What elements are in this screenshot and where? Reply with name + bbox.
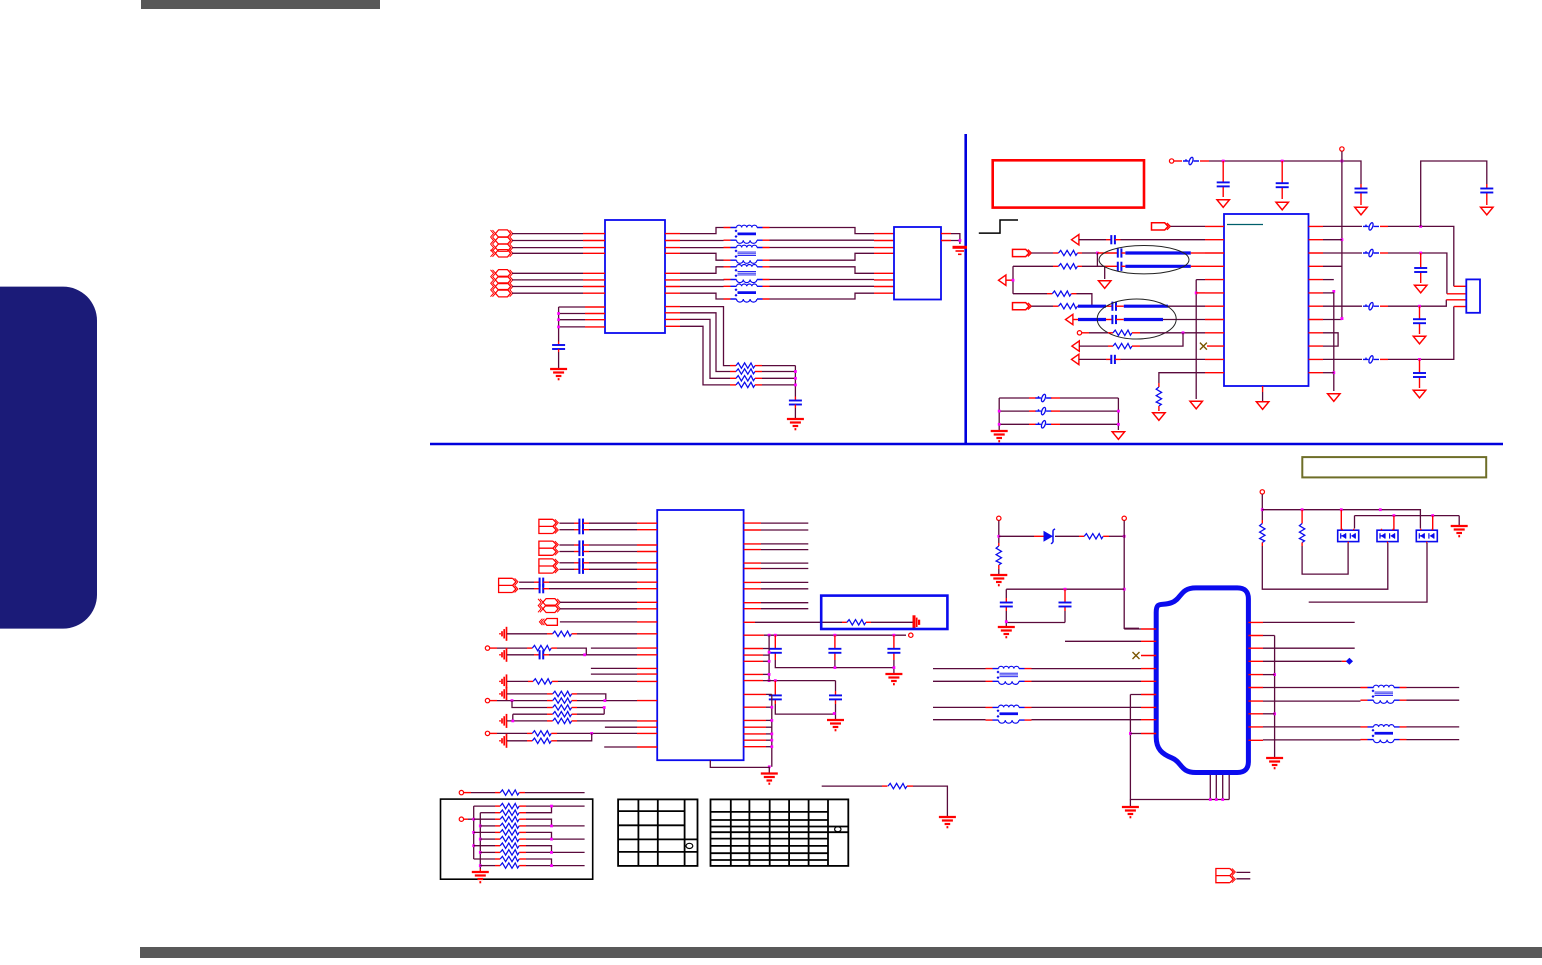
pin stub [574,522,579,524]
wire pack pair 4 [526,846,585,853]
wire pack row [474,858,495,860]
resistor R27 [1260,524,1265,543]
U4 pin stub [744,621,755,623]
pin stub [1486,184,1488,205]
capacitor C27 [887,649,900,653]
pin stub [551,647,557,649]
J2 right pin stubs [941,234,951,241]
wire U1 to T4 top [680,286,724,288]
junction [959,239,962,242]
wire T3 to J2 pin5 [770,267,875,274]
port PD3 [1013,303,1032,310]
wire pack row [480,825,495,827]
pin stub [882,785,888,787]
junction [1182,331,1185,334]
pack bus A junctions [472,818,475,821]
resistor R17 [553,705,572,710]
ground GND3 [787,419,804,429]
capacitor C4 [1276,183,1289,187]
resistor R15 [553,691,572,696]
terminal P10 [997,516,1001,520]
wire R16 to U4 [577,700,637,702]
resistor R20 [532,731,551,736]
wire U4 bus A [768,635,770,680]
pin stub [1034,535,1044,537]
no-connect X1 [1200,343,1207,350]
pin stub [637,647,657,649]
wire R2 to node [762,371,795,373]
pin stub [519,805,526,807]
U4 pin stub [744,693,766,695]
wire to J5 pin2 [1065,640,1141,642]
resistor R18 [553,712,572,717]
port PT3 [1066,314,1073,324]
pin stub [495,825,500,827]
wire P6 to R20 [497,732,527,734]
wire FB4 to J3 pin3 [1388,300,1446,306]
junction [590,732,593,735]
pin stub [1301,543,1303,547]
resistor RN2 [500,810,519,815]
pin stub [1420,253,1422,283]
pin stub [1301,510,1303,524]
wire U1 to T3 bottom [680,279,724,281]
pin stub [637,551,657,553]
capacitor C20 [579,558,583,567]
junction [583,653,586,656]
pin stub [527,740,532,742]
connector J5 (RJ45 jack) [1156,588,1248,773]
pin stub [1419,306,1421,334]
wire node to k3 [1096,253,1098,266]
pin stub [1106,239,1111,241]
resistor R28 [1299,524,1304,543]
wire T6 to J5 [1032,707,1142,719]
wire PB4 to cap [519,588,534,590]
wire T1 to J2 pin1 [770,228,875,234]
pin stub [1108,345,1113,347]
pin stub [583,292,605,294]
junctions [1393,514,1396,517]
wire PB5 leads [1236,872,1250,878]
junctions [768,634,771,637]
junctions [1273,673,1276,676]
wire GND21 to R15 [507,693,547,695]
capacitor C23 [540,584,544,593]
wire cap bank rail [775,660,894,673]
wire pack row [474,818,495,820]
wire cap rail top [1006,589,1124,598]
wire pin to bus A [763,654,769,656]
bottom gray bar [140,947,1542,958]
pin stub [1078,305,1081,307]
pin stub [730,371,736,373]
U4 pin stub [744,680,763,682]
wire PL1 to U4 [560,621,637,623]
wire U4 stub [605,726,637,728]
pin stub [572,707,577,709]
pin stub [519,845,526,847]
U3 bottom pin stub [1262,386,1264,392]
resistor R11 [1156,387,1161,406]
pin stub [637,529,657,531]
wire J1 to U1 [512,247,583,249]
pin stub [583,272,605,274]
TVS top stubs [1341,510,1432,531]
U3 right pin stubs [1309,226,1324,372]
horizontal divider [430,443,1503,446]
pin stub [547,693,553,695]
ground GND19 [500,648,507,662]
wire PB to cap [559,551,574,553]
ground GND28 [939,817,956,827]
wire to choke T5 [933,669,986,682]
junction [1123,588,1126,591]
pin stub [574,562,579,564]
junctions [1222,160,1225,163]
pin stub [1121,252,1125,254]
ground GND23 [500,734,507,748]
pin stub [543,581,549,583]
choke T4 [724,284,770,302]
wire U1 to T3 top [680,267,724,274]
wire pack row [480,838,495,840]
wire U4 outputs [761,603,808,609]
wire R5 to node [1082,252,1097,254]
ground GND2 [953,247,968,254]
ferrite bead FB7 [1036,407,1052,415]
ground GND17 [1112,432,1124,440]
pin stub [495,851,500,853]
wire pack row [480,865,495,867]
U4 pin stub [744,733,766,735]
U1 left pin stubs [585,307,605,327]
ground GND25 [885,674,902,684]
resistor R2 [736,369,755,374]
pin stub [495,812,500,814]
pin stub [637,588,657,590]
junction [1418,358,1421,361]
resistor RN10 [500,863,519,868]
wire U1 to T1 bottom [680,240,724,242]
port PD2 [1013,249,1032,256]
wire J5 shield right [1263,636,1275,758]
J5 right pin stubs [1248,622,1263,740]
wire pin to bus B [766,706,772,708]
pin stub [1116,319,1124,321]
wire U4 outputs [761,523,808,530]
pin stub [1380,358,1388,360]
ground GND27 [761,774,778,784]
pin stub [730,377,736,379]
capacitor C29 [829,695,842,699]
ground GND34 [1266,758,1283,768]
wire PD2 to R5 [1032,252,1054,254]
wire pack row [480,851,495,853]
wire cap to U4 [589,568,637,570]
pin stub [637,654,657,656]
pin stub [1115,239,1121,241]
J3 pin3 stub [1446,299,1466,301]
wire pin to bus A [763,660,769,662]
capacitor C24 [540,650,544,659]
capacitor C28 [769,695,782,699]
wire DA3 to shield [1309,543,1427,602]
resistor R23 [888,783,907,788]
wire pack pair 2 [526,819,585,826]
junction [550,805,553,808]
wire U4 bus B [771,694,773,766]
left navy tab [0,287,97,629]
U4 right pin stubs [744,563,761,568]
pin stub [1103,535,1109,537]
wire pin to bus A [763,673,769,675]
connector J1 pin 8 [491,290,513,297]
wire cap to U4 [549,581,637,583]
pin stub [1053,265,1059,267]
capacitor C8 [1118,262,1122,271]
pin stub [1261,520,1263,524]
connector J4 pin2 [538,605,560,612]
wire ground net vertical [1196,280,1205,399]
pin stub [1360,184,1362,205]
junction [997,535,1000,538]
wire net V2 [1341,151,1343,318]
wire R18 to node [577,713,604,715]
wire P8 to R24 [471,792,495,794]
wire pack row [474,845,495,847]
resistor R25 [1084,534,1103,539]
wire U3 k2 [1323,252,1362,254]
wire R22 to chassis ground [871,621,914,623]
port PB4 [499,578,518,592]
highlight ellipse E1 [1099,246,1189,274]
wire pack pair 3 [526,832,585,839]
wire pack bus A [473,806,475,859]
junctions [557,312,560,315]
capacitor C9 [1112,302,1116,311]
pin stub [572,633,577,635]
pin stub [583,551,589,553]
wire shield to ground [1129,800,1131,807]
resistor RN8 [500,850,519,855]
diff pair bar [1124,305,1168,308]
pin stub [519,851,526,853]
wire R21 to node [557,733,592,740]
pin stub [1078,265,1083,267]
pin stub [755,365,762,367]
pin stub [637,720,657,722]
wire P4 to R13 [497,647,527,649]
resistor R4 [736,382,755,387]
terminal P2 [1340,147,1344,151]
ground GND12 [1481,207,1493,215]
connector J4 pin1 [538,599,560,606]
pin stub [1132,345,1140,347]
pin stub [637,602,657,609]
pin stub [1342,660,1347,662]
choke T5 [986,666,1032,684]
pin stub [1029,397,1036,399]
wire pin to bus A [763,648,769,650]
wire pin to bus B [766,739,772,741]
IC U4 [657,510,743,760]
wire J5 out2 [1263,647,1355,649]
pin stub [1121,265,1125,267]
wire U4 to R22 [755,621,842,623]
pin stub [495,865,500,867]
capacitor C18 [579,540,583,549]
ferrite bead FB3 [1363,249,1379,257]
U4 pin stub [744,726,766,728]
wire cap to U4 [549,588,637,590]
wire cap to U4 [589,562,637,564]
pin stub [527,732,532,734]
wire U1 to R2 [680,313,730,372]
U3 internal marker line [1227,224,1263,226]
pin stub [1078,252,1083,254]
wire FB row 2 right [1060,410,1118,412]
pin stub [794,397,796,401]
pin stub [495,831,500,833]
diff pair bar [1078,318,1106,321]
junction [1123,535,1126,538]
pin stub [866,621,871,623]
capacitor C10 [1112,315,1116,324]
pin stub [1006,279,1013,281]
terminal P11 [1122,516,1126,520]
pin stub [528,680,533,682]
ground GND15 [1413,390,1425,398]
wire PB to cap [559,529,574,531]
capacitor C12 [1480,189,1493,193]
wire pin to bus B [766,746,772,748]
ground GND30 [990,575,1007,585]
wire P10 down [998,521,1000,544]
capacitor C26 [828,649,841,653]
pin stub [574,551,579,553]
U4 pin stub [744,706,766,708]
pin stub [519,838,526,840]
junction [604,699,607,702]
wire T5 to J5 [1032,669,1142,682]
pin stub [1053,252,1059,254]
wire P11 rail down [1124,521,1139,629]
wire pin to bus B [766,693,772,695]
wire cap to U4 [589,529,637,531]
junction [774,679,777,682]
wire R6 to C8 and ground [1082,266,1105,279]
ground GND20 [500,674,507,688]
net marker diamond [1346,658,1353,665]
diff pair bar [1078,305,1106,308]
port PB3 [539,559,558,573]
capacitor C11 [1111,355,1115,364]
choke T7 [1361,685,1407,703]
wire PT1 to C6 [1079,239,1106,241]
pin stub [1281,161,1283,199]
ground GND21 [500,687,507,701]
connector J1 pin 6 [491,276,513,283]
wire GND19 to C24 [507,654,534,656]
U4 pin stub [744,739,766,741]
resistor RN1 [500,803,519,808]
wire J5 pin to shield [1263,713,1275,715]
wire to R23 [822,785,882,787]
pin stub [1380,305,1388,307]
wire C24 to U4 [549,654,637,656]
junction [550,864,553,867]
pin stub [1082,332,1089,334]
junction [1418,305,1421,308]
junction [1195,292,1198,295]
junction [1419,252,1422,255]
junction [1064,588,1067,591]
logic step symbol [979,220,1018,233]
resistor R3 [736,376,755,381]
U4 pin stub [744,634,764,636]
ground GND18 [500,627,507,641]
pin stub [495,838,500,840]
wire J1 to U1 [512,286,583,288]
wire PB to cap [559,522,574,524]
wire D1 to R25 [1055,535,1079,537]
ground GND33 [1122,807,1139,817]
pin stub [637,668,657,674]
wire U4 outputs [761,563,808,568]
pin stub [583,562,589,564]
junctions [768,651,771,654]
resistor R13 [532,645,551,650]
pin stub [1196,292,1205,294]
resistor pack box [441,799,593,879]
terminal P12 [1260,490,1264,494]
connector J1 pin 7 [491,283,513,290]
junction [1261,508,1264,511]
wire C2 to ground [794,408,796,418]
pin stub [519,818,526,820]
U1 right pin stubs [665,234,680,327]
capacitor C14 [1413,319,1426,323]
U4 pin stub [744,673,763,675]
pin stub [558,349,560,352]
wire P3 to R9 [1089,332,1108,334]
terminal P4 [485,646,489,650]
pin stub [730,365,736,367]
wire to choke T6 [933,707,986,719]
wire R18 net [513,714,547,721]
ground GND5 [1276,202,1288,210]
junctions [1209,798,1212,801]
wire U3 k4 [1323,279,1334,281]
ground GND9 [1099,281,1111,289]
resistor R1 [736,363,755,368]
diff pair bar [1125,265,1190,268]
stub [1105,265,1118,267]
pin stub [1222,161,1224,197]
connector J3 [1466,279,1480,312]
IC U3 [1224,214,1309,386]
wire FB2 to J3 pin1 [1388,226,1454,286]
pin stub [1079,535,1084,537]
pin stub [775,681,835,704]
connector J1 pin 2 [491,237,513,244]
wire J2 shield [951,234,960,244]
pin stub [1051,410,1060,412]
pin stub [1047,293,1052,295]
wire R15 to node [577,694,606,701]
pin stub [583,286,605,288]
